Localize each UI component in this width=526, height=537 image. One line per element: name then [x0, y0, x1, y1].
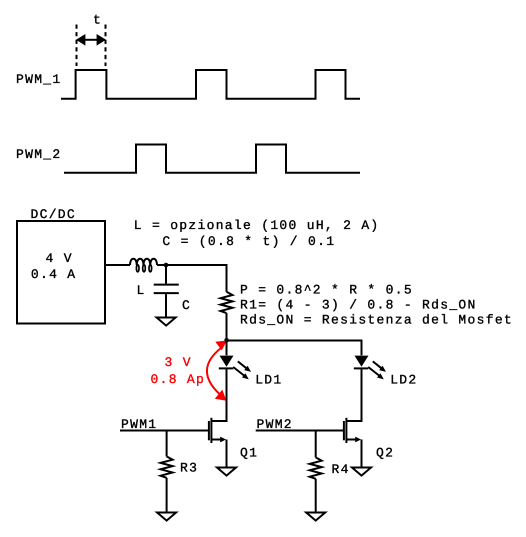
dimension arrow t (double headed) — [76, 34, 106, 46]
svg-text:4 V: 4 V — [46, 251, 73, 266]
label Q2 — [376, 446, 394, 461]
label 0.8 Ap (red) — [151, 372, 206, 387]
resistor R4 — [310, 457, 322, 478]
svg-text:L = opzionale (100 uH, 2 A): L = opzionale (100 uH, 2 A) — [134, 218, 380, 233]
dashed line left edge marker — [76, 25, 78, 67]
label R4 — [332, 462, 350, 477]
svg-text:P = 0.8^2 * R * 0.5: P = 0.8^2 * R * 0.5 — [240, 283, 413, 298]
label L — [137, 283, 146, 298]
label t (pulse width) — [93, 13, 102, 28]
transistor Q2 — [344, 369, 362, 467]
inductor L — [130, 259, 157, 272]
red annotation arc (3V / 0.8A across LD1) — [207, 341, 227, 401]
wire R3 to ground — [166, 478, 168, 512]
wire inductor to node and to R1 — [157, 265, 227, 292]
svg-text:L: L — [137, 283, 146, 298]
label DC/DC — [31, 207, 77, 222]
LED LD2 — [354, 355, 386, 421]
label PWM_2 — [16, 147, 62, 162]
label C — [182, 298, 191, 313]
svg-text:C: C — [182, 298, 191, 313]
wire R4 to ground — [315, 479, 317, 512]
label LD2 — [390, 373, 417, 388]
resistor R1 — [221, 292, 233, 313]
svg-text:DC/DC: DC/DC — [31, 207, 77, 222]
svg-text:LD1: LD1 — [255, 373, 282, 388]
svg-text:Rds_ON = Resistenza del Mosfet: Rds_ON = Resistenza del Mosfet — [240, 312, 513, 327]
label LD1 — [255, 373, 282, 388]
DC/DC converter box — [17, 221, 105, 324]
label PWM2 — [257, 417, 293, 432]
svg-text:Q2: Q2 — [376, 446, 394, 461]
node LED bus junction — [224, 338, 229, 343]
LED LD1 — [219, 341, 251, 422]
svg-text:t: t — [93, 13, 102, 28]
wire R1 to LED bus — [226, 313, 228, 340]
capacitor C — [154, 265, 179, 317]
note power formulas — [240, 283, 513, 328]
ground (capacitor) — [157, 318, 176, 326]
ground (Q1 source) — [217, 468, 236, 476]
ground (R3) — [157, 513, 176, 521]
svg-text:0.8 Ap: 0.8 Ap — [151, 372, 206, 387]
label PWM_1 — [16, 72, 62, 87]
wire PWM2 gate line — [256, 430, 343, 432]
wire PWM_2 waveform — [64, 145, 360, 173]
wire PWM1 gate line — [120, 430, 208, 432]
label 3 V (red) — [165, 355, 192, 370]
svg-text:R3: R3 — [180, 461, 198, 476]
wire PWM1 branch to R3 — [166, 431, 168, 457]
svg-text:PWM_1: PWM_1 — [16, 72, 62, 87]
node LC junction — [164, 263, 169, 268]
wire DC/DC output to inductor — [105, 264, 130, 266]
wire PWM_1 waveform — [61, 70, 360, 99]
ground (Q2 source) — [352, 468, 371, 476]
label R3 — [180, 461, 198, 476]
dashed line right edge marker — [105, 25, 107, 67]
svg-text:0.4 A: 0.4 A — [31, 267, 77, 282]
svg-text:R1= (4 - 3) / 0.8 - Rds_ON: R1= (4 - 3) / 0.8 - Rds_ON — [240, 297, 477, 312]
wire PWM2 branch to R4 — [315, 431, 317, 458]
svg-text:PWM_2: PWM_2 — [16, 147, 62, 162]
transistor Q1 — [209, 369, 227, 467]
label PWM1 — [121, 417, 157, 432]
wire LED bus — [227, 341, 362, 356]
resistor R3 — [161, 456, 173, 477]
svg-text:LD2: LD2 — [390, 373, 417, 388]
svg-text:Q1: Q1 — [240, 446, 258, 461]
svg-text:R4: R4 — [332, 462, 350, 477]
note L/C formulas — [134, 218, 380, 249]
svg-text:C = (0.8 * t) / 0.1: C = (0.8 * t) / 0.1 — [162, 234, 335, 249]
label Q1 — [240, 446, 258, 461]
svg-text:3 V: 3 V — [165, 355, 192, 370]
ground (R4) — [306, 513, 325, 521]
